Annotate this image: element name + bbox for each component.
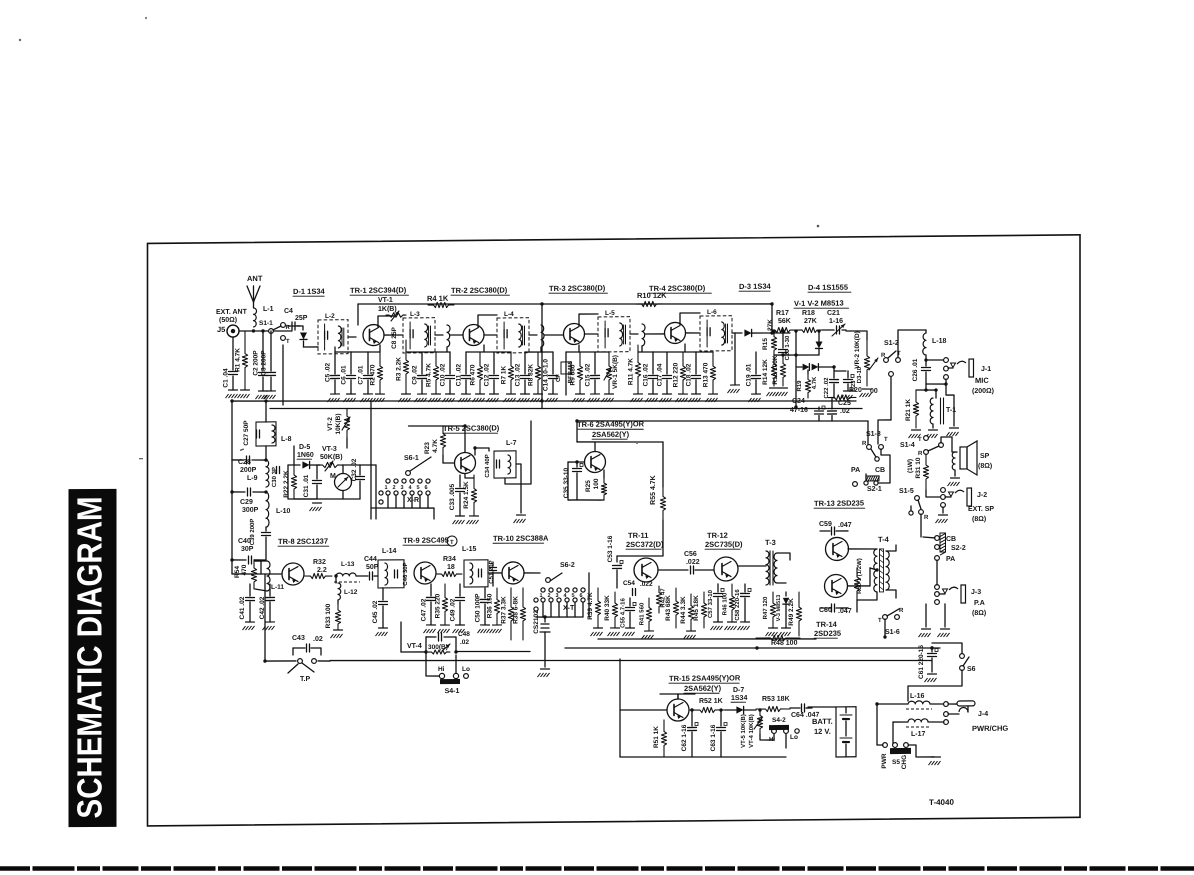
resistor R11 4.7K <box>635 345 640 394</box>
svg-text:25P: 25P <box>295 315 308 322</box>
svg-text:R4 1K: R4 1K <box>427 294 449 303</box>
svg-text:56K: 56K <box>778 318 791 325</box>
switch S4-1 <box>439 673 444 678</box>
svg-text:T: T <box>286 339 290 345</box>
capacitor C11 .02 <box>465 352 467 374</box>
wire <box>686 332 700 334</box>
scan specks <box>19 39 21 41</box>
svg-text:Hi: Hi <box>438 666 445 673</box>
capacitor C23 D3-10 <box>834 370 846 372</box>
resistor R12 220 <box>680 352 685 394</box>
svg-text:2: 2 <box>393 485 396 491</box>
wire <box>401 651 426 653</box>
svg-text:C8 25P: C8 25P <box>391 327 398 349</box>
svg-text:L-16: L-16 <box>910 693 924 700</box>
svg-text:2SC372(D): 2SC372(D) <box>626 540 664 549</box>
svg-text:C4: C4 <box>284 308 293 315</box>
schematic border frame <box>148 235 1081 826</box>
svg-text:2SC735(D): 2SC735(D) <box>705 540 743 549</box>
svg-text:V-1 V-2 M8513: V-1 V-2 M8513 <box>794 298 844 307</box>
svg-text:R37 3.3K: R37 3.3K <box>501 596 508 624</box>
wire <box>774 354 819 357</box>
wire <box>865 474 867 481</box>
svg-text:R34: R34 <box>443 556 456 563</box>
svg-text:SCHEMATIC DIAGRAM: SCHEMATIC DIAGRAM <box>71 496 110 818</box>
svg-text:R3 2.2K: R3 2.2K <box>396 357 403 381</box>
resistor R37 3.3K <box>508 588 513 640</box>
svg-text:C63 1-16: C63 1-16 <box>710 724 717 751</box>
wire <box>488 448 490 451</box>
wire bus 3 <box>577 418 868 423</box>
wire <box>941 437 952 443</box>
svg-text:C14 10-1.0: C14 10-1.0 <box>543 359 550 392</box>
jack J-3 PA <box>935 585 940 590</box>
IF can L-6 <box>700 316 732 351</box>
wire <box>846 330 866 332</box>
svg-text:S6-2: S6-2 <box>560 562 575 569</box>
switch S1-6 <box>883 615 888 620</box>
filter CF BFB455 <box>565 352 567 395</box>
svg-text:S4-1: S4-1 <box>445 688 460 695</box>
resistor R6 470 <box>477 352 482 394</box>
crystal bank X-R <box>386 479 390 483</box>
svg-text:C31 .01: C31 .01 <box>303 474 310 497</box>
trimmer C20 1-30 <box>782 331 784 348</box>
svg-text:R1 4.7K: R1 4.7K <box>235 348 242 372</box>
capacitor C14 10-1.0 <box>552 352 554 374</box>
svg-text:.02: .02 <box>840 408 850 415</box>
svg-text:L-14: L-14 <box>382 548 396 555</box>
svg-text:EXT. ANT: EXT. ANT <box>216 309 248 316</box>
svg-text:D-7: D-7 <box>733 687 744 694</box>
svg-text:R9 680: R9 680 <box>570 364 577 385</box>
svg-text:PA: PA <box>946 556 955 563</box>
svg-text:J-4: J-4 <box>978 711 988 718</box>
svg-text:X-R: X-R <box>407 497 419 504</box>
svg-text:6: 6 <box>425 485 428 491</box>
capacitor C15 .02 <box>594 352 596 374</box>
svg-text:3: 3 <box>556 593 559 599</box>
resistor R16 100K <box>780 355 785 386</box>
svg-text:(8Ω): (8Ω) <box>978 463 992 470</box>
capacitor C41 .02 <box>249 584 251 596</box>
svg-text:C32 .02: C32 .02 <box>351 458 358 481</box>
capacitor C10 .02 <box>449 352 451 374</box>
wire <box>898 330 926 357</box>
coil L-1 <box>254 308 257 327</box>
svg-text:4.7K: 4.7K <box>432 439 439 453</box>
wire <box>877 703 908 706</box>
svg-text:TR-9 2SC495: TR-9 2SC495 <box>403 536 449 545</box>
svg-text:.022: .022 <box>686 559 700 566</box>
svg-text:SP: SP <box>980 453 990 460</box>
wire <box>619 659 621 757</box>
svg-text:R33 100: R33 100 <box>325 603 332 628</box>
svg-text:TR-11: TR-11 <box>628 531 648 540</box>
wire <box>795 331 797 407</box>
capacitor C9 .02 <box>421 352 423 374</box>
wire <box>877 744 883 746</box>
svg-text:R6 470: R6 470 <box>470 364 477 385</box>
capacitor C55 4.7-16 <box>629 598 631 606</box>
wire <box>867 421 869 444</box>
svg-text:C7 .01: C7 .01 <box>358 365 365 385</box>
svg-text:C10 .02: C10 .02 <box>440 363 447 386</box>
wire <box>760 734 774 740</box>
svg-text:L-8: L-8 <box>281 436 292 443</box>
svg-text:R: R <box>924 515 929 521</box>
svg-text:C43: C43 <box>292 635 305 642</box>
svg-text:.02: .02 <box>460 639 469 646</box>
svg-text:T-4: T-4 <box>878 535 890 544</box>
svg-text:R14 12K: R14 12K <box>762 359 769 385</box>
svg-text:R: R <box>881 353 886 359</box>
wire vertical drop <box>541 304 543 409</box>
wire <box>370 401 372 519</box>
svg-text:.02: .02 <box>313 636 323 643</box>
svg-text:.022: .022 <box>640 581 653 588</box>
capacitor C47 .02 <box>430 584 432 596</box>
wire long bus <box>330 655 932 666</box>
wire <box>231 492 233 560</box>
resistor R13 470 <box>710 352 715 394</box>
svg-text:C22 .02: C22 .02 <box>824 377 830 399</box>
svg-text:D-4 1S1555: D-4 1S1555 <box>808 283 848 292</box>
svg-text:R19: R19 <box>797 380 803 392</box>
svg-text:200P: 200P <box>240 467 257 474</box>
crystal bank X-T <box>541 588 545 592</box>
diode D-2 <box>816 341 823 348</box>
svg-text:EXT. SP: EXT. SP <box>968 506 994 513</box>
capacitor C1 .04 <box>232 337 234 370</box>
svg-text:C46 30P: C46 30P <box>403 562 409 585</box>
svg-text:C45 .02: C45 .02 <box>372 600 379 623</box>
resistor R2 470 <box>377 352 382 394</box>
wire <box>932 424 934 428</box>
capacitor C58 220-16 <box>744 584 746 592</box>
svg-text:C19 .01: C19 .01 <box>746 363 753 386</box>
svg-text:C12 .02: C12 .02 <box>484 363 491 386</box>
wire <box>884 619 886 637</box>
svg-text:MIC: MIC <box>975 376 989 385</box>
svg-text:C1 .04: C1 .04 <box>223 368 230 388</box>
svg-text:J-3: J-3 <box>971 589 981 596</box>
svg-text:30P: 30P <box>241 546 254 553</box>
svg-text:S2-2: S2-2 <box>951 545 966 552</box>
svg-text:00: 00 <box>870 388 878 395</box>
svg-text:12 V.: 12 V. <box>814 727 831 736</box>
svg-text:4.7K: 4.7K <box>812 376 818 389</box>
svg-text:3: 3 <box>401 485 404 491</box>
svg-text:L-6: L-6 <box>707 309 717 316</box>
IF can L-4 <box>497 318 529 353</box>
resistor R41 560 <box>646 598 651 631</box>
plug pin <box>957 701 975 706</box>
svg-text:S2-1: S2-1 <box>867 486 882 493</box>
capacitor C49 .02 <box>459 584 461 596</box>
svg-text:TR-6 2SA495(Y)OR: TR-6 2SA495(Y)OR <box>577 419 645 429</box>
svg-text:47-16: 47-16 <box>790 407 808 414</box>
coil speaker <box>952 452 955 470</box>
capacitor C22 .02 <box>833 367 835 378</box>
svg-text:VR-1 5K(B): VR-1 5K(B) <box>612 355 619 389</box>
resistor R49 2.2K <box>796 592 801 636</box>
resistor R38 6.8K <box>520 588 525 640</box>
svg-text:C35 33-10: C35 33-10 <box>563 467 570 498</box>
svg-text:C18 .02: C18 .02 <box>686 363 693 386</box>
svg-text:J-1: J-1 <box>981 366 991 373</box>
svg-text:2: 2 <box>548 593 551 599</box>
svg-text:(200Ω): (200Ω) <box>972 388 994 395</box>
svg-text:R: R <box>918 451 923 457</box>
svg-text:C47 .02: C47 .02 <box>421 598 428 621</box>
svg-text:X-T: X-T <box>563 605 575 612</box>
svg-text:C17 .04: C17 .04 <box>657 363 664 386</box>
coil L-8 <box>272 425 275 443</box>
svg-text:T: T <box>884 437 888 443</box>
resistor R40 33K <box>612 592 617 628</box>
wire <box>488 572 502 574</box>
svg-text:S1-6: S1-6 <box>885 629 900 636</box>
svg-text:D-3 1S34: D-3 1S34 <box>739 282 772 291</box>
svg-text:T-1: T-1 <box>946 407 956 414</box>
svg-text:C61 220-16: C61 220-16 <box>918 645 925 679</box>
svg-text:R15: R15 <box>762 338 769 350</box>
svg-text:T: T <box>450 540 454 546</box>
wire ground bus <box>233 395 856 406</box>
svg-text:Lo: Lo <box>790 734 798 741</box>
svg-text:1K(B): 1K(B) <box>378 306 397 313</box>
svg-text:L-15: L-15 <box>462 546 476 553</box>
svg-text:R51 1K: R51 1K <box>653 726 660 748</box>
svg-text:PA: PA <box>851 467 860 474</box>
svg-text:R: R <box>862 441 867 447</box>
svg-text:R7 1K: R7 1K <box>501 365 508 384</box>
resistor R1 4.7K <box>242 331 247 390</box>
svg-text:L-12: L-12 <box>344 589 358 596</box>
varistor V-3 M8513 <box>785 592 787 596</box>
switch T.P <box>292 648 294 655</box>
svg-text:(8Ω): (8Ω) <box>972 610 986 617</box>
svg-text:CF: CF <box>556 374 562 382</box>
switch S5 PWR CHG <box>883 743 888 748</box>
svg-text:L-7: L-7 <box>506 440 517 447</box>
svg-text:C64 .047: C64 .047 <box>791 712 820 719</box>
svg-text:C5 .02: C5 .02 <box>325 362 332 382</box>
svg-text:27K: 27K <box>804 318 817 325</box>
IF can L-3 <box>403 318 435 353</box>
svg-text:R52 1K: R52 1K <box>699 698 723 705</box>
svg-text:S1-5: S1-5 <box>899 488 914 495</box>
capacitor C5 .02 <box>334 347 336 374</box>
svg-text:TR-3 2SC380(D): TR-3 2SC380(D) <box>549 283 606 293</box>
svg-text:C48: C48 <box>458 631 470 638</box>
svg-text:C42 .02: C42 .02 <box>259 596 266 619</box>
svg-text:C29: C29 <box>240 499 253 506</box>
wire <box>942 507 944 513</box>
svg-text:(50Ω): (50Ω) <box>219 317 237 324</box>
svg-text:TR-12: TR-12 <box>707 531 728 540</box>
capacitor C13 .02 <box>524 352 526 374</box>
svg-text:.047: .047 <box>838 522 852 529</box>
svg-text:10K(B): 10K(B) <box>335 413 342 434</box>
svg-text:C57 33-10: C57 33-10 <box>708 589 714 618</box>
svg-text:T: T <box>878 618 882 624</box>
svg-text:S4-2: S4-2 <box>772 717 786 724</box>
wire bus <box>565 645 940 652</box>
svg-text:R23: R23 <box>424 442 431 454</box>
svg-text:CS2102: CS2102 <box>533 610 540 634</box>
svg-text:C2 200P: C2 200P <box>253 350 260 376</box>
coil L-12 <box>338 583 341 600</box>
svg-text:R45 18K: R45 18K <box>693 595 700 621</box>
svg-text:C39 200P: C39 200P <box>250 519 256 546</box>
wire bus <box>598 637 816 641</box>
svg-text:R: R <box>899 608 904 614</box>
svg-text:R21 1K: R21 1K <box>905 399 912 421</box>
svg-text:S5: S5 <box>892 759 900 766</box>
wire <box>738 565 766 568</box>
svg-text:R35 220: R35 220 <box>435 593 442 618</box>
wire <box>568 461 584 463</box>
svg-text:L-5: L-5 <box>605 310 615 317</box>
pot VR-1 5K(B) <box>606 352 611 394</box>
svg-text:L-1: L-1 <box>263 306 274 313</box>
svg-text:S6-1: S6-1 <box>404 455 419 462</box>
svg-text:C44: C44 <box>364 556 377 563</box>
svg-text:PWR/CHG: PWR/CHG <box>972 724 1008 733</box>
switch S2-2 CB PA <box>935 536 940 541</box>
svg-text:C15 .02: C15 .02 <box>585 363 592 386</box>
svg-text:R22 2.2K: R22 2.2K <box>283 470 290 498</box>
resistor R15 <box>771 331 776 356</box>
svg-text:R12 220: R12 220 <box>673 362 680 387</box>
svg-text:PWR: PWR <box>881 753 888 769</box>
svg-text:C13 .02: C13 .02 <box>515 363 522 386</box>
capacitor C6 .01 <box>350 352 352 374</box>
svg-text:L-4: L-4 <box>504 311 514 318</box>
svg-text:C54: C54 <box>623 580 635 587</box>
svg-text:C3 200P: C3 200P <box>261 350 268 376</box>
svg-text:R2 470: R2 470 <box>370 364 377 385</box>
svg-text:Lo: Lo <box>462 666 470 673</box>
wire <box>265 574 296 661</box>
pot VR-2 10K(D) <box>866 331 868 340</box>
capacitor C57 33-10 <box>717 584 719 592</box>
svg-text:C41 .02: C41 .02 <box>239 596 246 619</box>
svg-text:R24 1.5K: R24 1.5K <box>463 481 470 509</box>
svg-text:C58 220-16: C58 220-16 <box>735 589 741 621</box>
svg-text:100: 100 <box>593 478 600 489</box>
wire <box>231 460 233 492</box>
wire <box>954 470 956 476</box>
coil L-17 <box>908 719 928 722</box>
svg-text:R41 560: R41 560 <box>640 602 646 625</box>
svg-text:VT-4: VT-4 <box>407 643 422 650</box>
svg-text:J5: J5 <box>217 325 225 334</box>
svg-text:R46 100: R46 100 <box>723 592 729 615</box>
wire <box>734 333 736 385</box>
svg-text:TR-4 2SC380(D): TR-4 2SC380(D) <box>649 283 706 293</box>
wire <box>848 548 877 551</box>
svg-text:C34 40P: C34 40P <box>485 454 491 477</box>
svg-text:T.P: T.P <box>300 676 310 683</box>
svg-text:50P: 50P <box>366 564 379 571</box>
svg-text:R32: R32 <box>313 559 326 566</box>
svg-text:L-11: L-11 <box>271 584 284 591</box>
svg-text:VT-3: VT-3 <box>322 446 337 453</box>
resistor R36 150 <box>494 588 499 625</box>
wire <box>265 401 267 422</box>
svg-text:C50 100P: C50 100P <box>475 593 482 623</box>
svg-text:.047: .047 <box>838 608 852 615</box>
resistor R9 680 <box>577 352 582 394</box>
svg-text:TR-1 2SC394(D): TR-1 2SC394(D) <box>350 285 407 295</box>
wire T contact <box>924 436 929 441</box>
resistor R7 1K <box>508 352 513 394</box>
diodes pair <box>803 364 810 371</box>
svg-text:300(B): 300(B) <box>428 644 448 651</box>
coil L-18 <box>925 330 927 333</box>
resistor R14 12K <box>771 356 776 386</box>
wire <box>936 560 938 585</box>
wire bus 2 <box>270 403 862 414</box>
svg-text:TR-15 2SA495(Y)OR: TR-15 2SA495(Y)OR <box>669 673 741 683</box>
wire <box>304 346 319 348</box>
svg-text:R16 100K: R16 100K <box>772 355 779 385</box>
svg-text:C25: C25 <box>838 400 851 407</box>
svg-text:VT-5 10K(B): VT-5 10K(B) <box>741 714 747 748</box>
wire collector stubs <box>478 315 497 327</box>
svg-text:C20 1-30: C20 1-30 <box>785 335 791 360</box>
capacitor C7 .01 <box>367 352 369 374</box>
svg-text:2SA562(Y): 2SA562(Y) <box>684 684 722 693</box>
svg-text:C24: C24 <box>792 398 805 405</box>
capacitor C16 .02 <box>652 352 654 374</box>
wire <box>926 383 946 385</box>
resistor R19 4.7K <box>807 370 809 374</box>
resistor R43 68K <box>673 588 678 628</box>
svg-text:R40 33K: R40 33K <box>604 595 611 621</box>
svg-text:J-2: J-2 <box>977 492 987 499</box>
wire <box>771 304 773 333</box>
resistor R44 3.3K <box>688 594 693 631</box>
svg-text:1: 1 <box>385 485 388 491</box>
svg-text:R43 68K: R43 68K <box>665 595 672 621</box>
svg-text:R53 18K: R53 18K <box>762 696 790 703</box>
capacitor C3 200P <box>270 331 272 371</box>
capacitor C19 .01 <box>755 352 757 374</box>
wire stack ties <box>335 351 380 354</box>
wire <box>384 334 403 336</box>
svg-text:18: 18 <box>447 564 455 571</box>
wire <box>594 442 596 451</box>
wire <box>588 573 590 617</box>
resistor R3 2.2K <box>403 340 408 394</box>
resistor R46 100 <box>729 584 734 622</box>
wire <box>585 333 598 335</box>
coil L-10 <box>266 492 269 527</box>
svg-text:V-3 M8513: V-3 M8513 <box>776 595 782 622</box>
resistor R51 1K <box>661 720 666 757</box>
svg-text:R44 3.3K: R44 3.3K <box>680 596 687 624</box>
svg-text:2SD235: 2SD235 <box>814 629 841 638</box>
wire <box>926 490 940 497</box>
svg-text:R20: R20 <box>849 387 862 394</box>
resistor R42 47 <box>656 586 661 613</box>
svg-text:P.A: P.A <box>974 600 985 607</box>
svg-text:TR-8 2SC1237: TR-8 2SC1237 <box>278 537 328 546</box>
